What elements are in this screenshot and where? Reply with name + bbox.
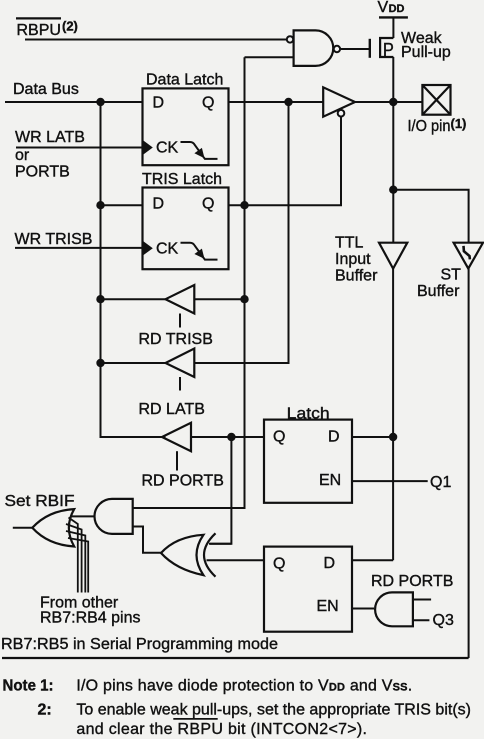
svg-text:WR TRISB: WR TRISB bbox=[15, 231, 93, 248]
wire Data Bus bbox=[5, 101, 143, 103]
wire ST output down to frame bbox=[468, 269, 470, 658]
svg-text:Data Bus: Data Bus bbox=[13, 81, 79, 98]
wire data bus vertical bbox=[101, 102, 166, 437]
hysteresis symbol bbox=[464, 246, 470, 260]
svg-text:Buffer: Buffer bbox=[335, 268, 378, 285]
svg-text:EN: EN bbox=[319, 472, 341, 489]
wire Set RBIF stub bbox=[13, 527, 34, 529]
and gate U12 read enable (points left) bbox=[375, 592, 413, 626]
node junction latch1 Q row bbox=[227, 433, 235, 441]
wire data latch Q output row bbox=[229, 101, 324, 103]
overline RBPU in note bbox=[173, 718, 217, 720]
svg-text:Pull-up: Pull-up bbox=[401, 44, 451, 61]
node junction RD TRISB bbox=[96, 295, 104, 303]
wire latch1 D bbox=[352, 436, 393, 438]
node junction latch1 D bbox=[389, 433, 397, 441]
wire XOR upper input bbox=[209, 543, 231, 545]
node junction NAND in2 vertical at TRIS Q bbox=[240, 201, 248, 209]
wire RD TRISB output bbox=[101, 298, 166, 300]
wire latch1 EN to Q1 bbox=[352, 480, 428, 482]
buffer U9 RD PORTB bbox=[162, 423, 191, 451]
clock edge symbol TRIS latch bbox=[143, 241, 153, 255]
svg-text:2:: 2: bbox=[38, 701, 52, 718]
label TTL Input Buffer bbox=[335, 235, 378, 285]
node junction pin bbox=[389, 98, 397, 106]
wire NAND input 2 bbox=[245, 56, 294, 58]
wire pin vertical down bbox=[392, 102, 394, 243]
wire driver output to pin bbox=[355, 101, 422, 103]
wire RD PORTB input bbox=[191, 436, 264, 438]
xor extra arc bbox=[204, 533, 216, 576]
svg-text:D: D bbox=[153, 196, 165, 213]
I/O pin symbol bbox=[422, 85, 450, 115]
wire to ST buffer bbox=[393, 190, 468, 243]
wire TRIS D input bbox=[101, 204, 143, 206]
label From other RB7:RB4 pins bbox=[40, 595, 141, 627]
transistor Q weak pull-up P-MOSFET bbox=[370, 38, 394, 60]
wire RD TRISB enable stub bbox=[179, 314, 181, 328]
wire VDD to MOSFET source bbox=[392, 17, 394, 38]
wire read gate input RD PORTB bbox=[413, 599, 431, 601]
svg-text:PORTB: PORTB bbox=[15, 164, 70, 181]
node junction input buffers bbox=[389, 186, 397, 194]
wire RBPU to NAND input 1 bbox=[25, 39, 286, 41]
svg-text:RB7:RB5 in Serial Programming: RB7:RB5 in Serial Programming mode bbox=[1, 636, 278, 653]
wire bundle from other pins 3 bbox=[66, 531, 85, 593]
wire RD PORTB enable stub bbox=[176, 451, 178, 470]
svg-text:or: or bbox=[15, 147, 30, 164]
svg-text:Buffer: Buffer bbox=[417, 283, 460, 300]
svg-text:and clear the RBPU bit (INTCON: and clear the RBPU bit (INTCON2<7>). bbox=[76, 721, 367, 738]
wire VDD bar bbox=[379, 16, 408, 18]
node junction data bus bbox=[96, 98, 104, 106]
latch U11 box bbox=[264, 547, 352, 632]
svg-text:Q1: Q1 bbox=[430, 474, 451, 491]
note 2 bbox=[38, 701, 471, 738]
svg-text:Note 1:: Note 1: bbox=[3, 677, 54, 694]
wire RD LATB enable stub bbox=[179, 377, 181, 391]
svg-text:Data Latch: Data Latch bbox=[146, 72, 223, 89]
wire RD LATB output bbox=[101, 362, 166, 364]
svg-text:Set RBIF: Set RBIF bbox=[5, 493, 75, 510]
svg-text:CK: CK bbox=[156, 241, 179, 258]
wire enable down to TRIS Q row bbox=[229, 116, 342, 205]
svg-text:I/O pin: I/O pin bbox=[408, 118, 451, 135]
wire WR LATB to data latch CK bbox=[16, 147, 143, 149]
svg-text:TRIS Latch: TRIS Latch bbox=[142, 171, 222, 188]
label WR LATB or PORTB bbox=[15, 129, 85, 181]
wire NAND output to gate of P-MOSFET bbox=[341, 48, 369, 50]
wire read gate input Q3 bbox=[413, 619, 430, 621]
latch U10 box bbox=[264, 420, 352, 503]
label Weak Pull-up bbox=[401, 30, 451, 61]
svg-text:Input: Input bbox=[335, 251, 371, 268]
svg-text:Q: Q bbox=[273, 556, 285, 573]
svg-text:(1): (1) bbox=[451, 116, 467, 131]
svg-text:D: D bbox=[324, 555, 336, 572]
svg-text:D: D bbox=[328, 429, 340, 446]
latch U6 TRIS Latch box bbox=[143, 188, 229, 270]
svg-text:P: P bbox=[383, 39, 394, 60]
svg-text:I/O pins have diode protection: I/O pins have diode protection to VDD an… bbox=[76, 677, 412, 694]
wire latch2 Q to XOR input bbox=[207, 559, 265, 561]
node junction RD LATB bbox=[96, 359, 104, 367]
node junction at RD TRISB row bbox=[240, 295, 248, 303]
latch U2 Data Latch box bbox=[143, 88, 229, 165]
and gate U14 RBIF gate (points left) bbox=[94, 499, 132, 534]
buffer U8 RD LATB bbox=[166, 349, 195, 378]
xor gate U15 (points left) bbox=[161, 535, 204, 575]
bubble tri-state enable bbox=[338, 110, 345, 117]
buffer U7 RD TRISB bbox=[166, 285, 195, 314]
power VDD bbox=[378, 0, 405, 16]
svg-text:RD LATB: RD LATB bbox=[139, 401, 205, 418]
svg-text:Q3: Q3 bbox=[433, 612, 454, 629]
svg-text:Q: Q bbox=[202, 196, 214, 213]
node junction TRIS D bbox=[96, 201, 104, 209]
svg-text:DD: DD bbox=[389, 3, 405, 15]
wire MOSFET drain down to pin row bbox=[392, 57, 394, 102]
wire data Q down to RD LATB buffer bbox=[194, 102, 288, 363]
svg-text:RD PORTB: RD PORTB bbox=[142, 473, 224, 490]
svg-text:V: V bbox=[378, 0, 389, 16]
wire latch2 D from TTL vertical bbox=[352, 559, 393, 561]
nand gate U1 (weak pull-up control) bbox=[294, 30, 334, 66]
wire bundle from other pins 1 bbox=[69, 518, 78, 593]
label ST Buffer bbox=[417, 267, 461, 301]
node RBPU label bbox=[17, 19, 78, 39]
frame rule bbox=[2, 657, 469, 659]
buffer U4 TTL input buffer bbox=[379, 243, 407, 269]
clock edge symbol data latch bbox=[143, 140, 153, 154]
svg-text:RBPU: RBPU bbox=[17, 22, 61, 39]
wire AND1 upper input bbox=[133, 507, 245, 509]
svg-text:EN: EN bbox=[317, 598, 339, 615]
wire bundle from other pins 2 bbox=[66, 524, 82, 593]
bubble NAND output bbox=[334, 46, 340, 52]
wire TTL output down bbox=[392, 269, 394, 561]
node junction data Q bbox=[284, 98, 292, 106]
wire RD TRISB input bbox=[194, 298, 244, 300]
svg-text:To enable weak pull-ups, set t: To enable weak pull-ups, set the appropr… bbox=[76, 701, 471, 718]
overline RBPU bbox=[16, 17, 61, 19]
svg-text:(2): (2) bbox=[62, 19, 78, 34]
wire latch1 Q down to XOR bbox=[210, 437, 231, 544]
svg-text:ST: ST bbox=[441, 267, 462, 284]
svg-text:D: D bbox=[153, 95, 165, 112]
wire NAND in2 vertical bbox=[133, 57, 245, 508]
svg-text:RD TRISB: RD TRISB bbox=[139, 331, 213, 348]
wire AND1 lower input from XOR output bbox=[133, 527, 162, 553]
svg-text:Q: Q bbox=[202, 95, 214, 112]
svg-text:TTL: TTL bbox=[335, 235, 364, 252]
wire WR TRISB to TRIS CK bbox=[15, 247, 143, 249]
svg-text:WR LATB: WR LATB bbox=[15, 129, 85, 146]
wire latch2 EN to read gate bbox=[352, 608, 374, 610]
or gate U13 set RBIF (points left) bbox=[32, 509, 74, 546]
buffer U5 ST buffer bbox=[454, 243, 483, 269]
label I/O pin(1) bbox=[408, 116, 467, 135]
note 1 bbox=[3, 677, 413, 694]
svg-text:CK: CK bbox=[156, 139, 179, 156]
wire bundle from other pins 4 bbox=[68, 538, 88, 593]
wire AND1 output to OR input bbox=[70, 515, 95, 517]
svg-text:RD PORTB: RD PORTB bbox=[371, 573, 453, 590]
svg-text:RB7:RB4 pins: RB7:RB4 pins bbox=[40, 610, 141, 627]
buffer U3 output driver tri-state bbox=[323, 87, 355, 116]
svg-text:Q: Q bbox=[273, 429, 285, 446]
bubble NAND input 1 bbox=[287, 36, 293, 42]
